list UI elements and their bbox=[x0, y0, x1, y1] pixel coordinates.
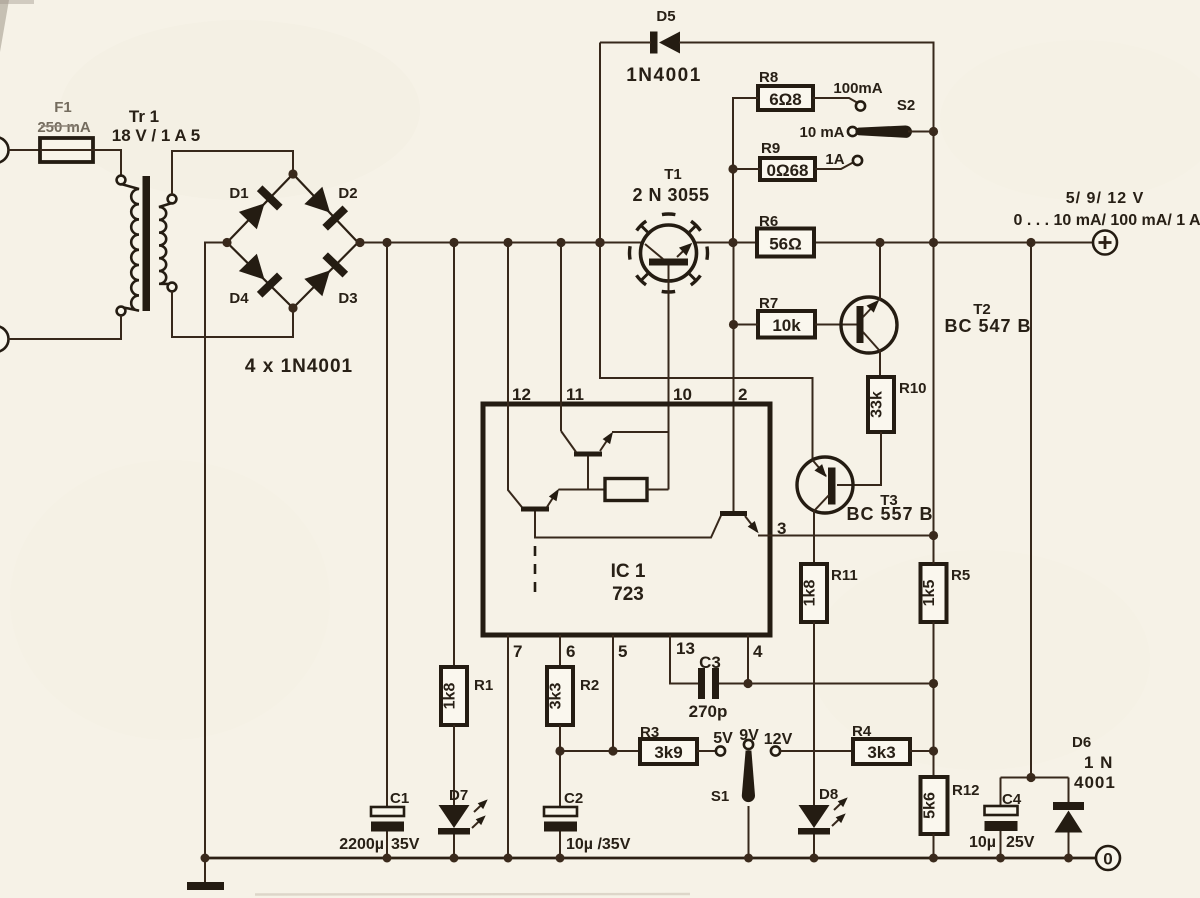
diode D2 bbox=[303, 186, 348, 231]
wire bbox=[8, 149, 40, 151]
svg-text:4: 4 bbox=[753, 642, 763, 661]
wire S1 to ground rail bbox=[748, 806, 750, 858]
node rail R1 bbox=[449, 238, 458, 247]
wire pin11 vertical bbox=[560, 243, 562, 432]
ground rail bbox=[205, 857, 1096, 860]
wire bridge sides bbox=[227, 174, 358, 308]
wire internal emitter rail bbox=[559, 489, 606, 491]
node gnd R12 bbox=[929, 854, 938, 863]
diode D3 bbox=[303, 252, 348, 297]
wire R1 branch bbox=[453, 243, 455, 668]
svg-text:F1: F1 bbox=[54, 99, 72, 116]
node rail S2 bbox=[929, 238, 938, 247]
wire C4/D6 branch bbox=[1030, 243, 1032, 778]
transistor internal Qc bbox=[720, 511, 747, 516]
svg-text:2 N 3055: 2 N 3055 bbox=[632, 185, 709, 205]
svg-text:D4: D4 bbox=[229, 290, 249, 307]
svg-text:3k9: 3k9 bbox=[654, 743, 682, 762]
wire D5 to right corner bbox=[679, 43, 934, 132]
svg-text:R10: R10 bbox=[899, 380, 927, 397]
svg-text:1k8: 1k8 bbox=[802, 580, 819, 607]
svg-text:3: 3 bbox=[777, 519, 786, 538]
wire R8 right to contact bbox=[813, 98, 857, 103]
switch contact 12V bbox=[771, 746, 780, 755]
wire internal resistor right bbox=[647, 489, 669, 491]
wire R9 right to contact bbox=[815, 163, 853, 170]
node R7 junction bbox=[729, 320, 738, 329]
wire R10 bottom to T3 base bbox=[837, 432, 881, 485]
wire C3 right to R5 vertical bbox=[719, 683, 934, 685]
svg-text:1k8: 1k8 bbox=[442, 683, 459, 710]
svg-text:56Ω: 56Ω bbox=[769, 235, 802, 254]
wire R2 junction to R3 bbox=[560, 750, 640, 752]
node gnd pin7 bbox=[504, 854, 513, 863]
svg-text:13: 13 bbox=[676, 639, 695, 658]
node rail C1 bbox=[382, 238, 391, 247]
wire C1 branch bbox=[386, 243, 388, 808]
svg-text:D6: D6 bbox=[1072, 734, 1091, 751]
svg-text:10 mA: 10 mA bbox=[799, 124, 844, 141]
node pin5 junction bbox=[608, 746, 617, 755]
svg-text:100mA: 100mA bbox=[833, 80, 882, 97]
node rail T2 bbox=[875, 238, 884, 247]
wire R7 right to T2 base bbox=[815, 324, 857, 326]
wire R5 to R12 bbox=[933, 622, 935, 777]
wire pin13 bbox=[670, 635, 698, 684]
wire R3 right bbox=[697, 750, 716, 752]
svg-text:33k: 33k bbox=[869, 391, 886, 418]
node bridge left bbox=[222, 238, 231, 247]
svg-text:12V: 12V bbox=[764, 731, 793, 748]
svg-text:10: 10 bbox=[673, 385, 692, 404]
svg-text:6Ω8: 6Ω8 bbox=[769, 90, 802, 109]
svg-text:D3: D3 bbox=[338, 290, 357, 307]
node gnd C4 bbox=[996, 854, 1005, 863]
switch contact 5V bbox=[716, 746, 725, 755]
wire bbox=[8, 315, 121, 339]
svg-text:270p: 270p bbox=[689, 702, 728, 721]
svg-text:5: 5 bbox=[618, 642, 627, 661]
switch S2 wiper bbox=[855, 125, 912, 137]
svg-text:T1: T1 bbox=[664, 166, 682, 183]
svg-text:D8: D8 bbox=[819, 786, 838, 803]
wire positive rail right bbox=[814, 242, 1093, 244]
node gnd S1 bbox=[744, 854, 753, 863]
node bridge bottom bbox=[288, 303, 297, 312]
svg-text:4001: 4001 bbox=[1074, 773, 1116, 792]
switch contact 10mA bbox=[848, 127, 857, 136]
wire bbox=[172, 291, 293, 337]
svg-text:11: 11 bbox=[566, 385, 584, 404]
wire R4 right bbox=[910, 750, 934, 752]
svg-text:0 . . . 10 mA/ 100 mA/ 1 A: 0 . . . 10 mA/ 100 mA/ 1 A bbox=[1013, 212, 1200, 229]
diode D4 bbox=[238, 253, 283, 298]
node pin4/C3 bbox=[743, 679, 752, 688]
wire D5 cathode drop to rail and T3 feed bbox=[600, 43, 813, 462]
wire positive rail left bbox=[360, 242, 642, 244]
svg-text:1k5: 1k5 bbox=[921, 580, 938, 607]
switch contact 9V bbox=[744, 740, 753, 749]
wire 12V to R4 bbox=[780, 750, 853, 752]
wire T2 emitter to R10 bbox=[879, 350, 881, 377]
switch S1 wiper bbox=[742, 751, 755, 803]
wire Qb base down bbox=[535, 512, 721, 538]
node C4/D6 top bbox=[1026, 773, 1035, 782]
svg-text:5k6: 5k6 bbox=[922, 792, 939, 819]
wire pin2 vertical bbox=[733, 243, 735, 512]
svg-text:D1: D1 bbox=[229, 185, 248, 202]
svg-text:2: 2 bbox=[738, 385, 747, 404]
svg-text:R8: R8 bbox=[759, 69, 778, 86]
wire minus vertical bbox=[205, 243, 227, 859]
node gnd C1 bbox=[383, 854, 392, 863]
node gnd D6 bbox=[1064, 854, 1073, 863]
node gnd C2 bbox=[556, 854, 565, 863]
node C3/R5 bbox=[929, 679, 938, 688]
node rail pin2 bbox=[728, 238, 737, 247]
svg-text:9V: 9V bbox=[739, 727, 759, 744]
node S2 right bbox=[929, 127, 938, 136]
node rail pin12 bbox=[503, 238, 512, 247]
svg-text:4 x 1N4001: 4 x 1N4001 bbox=[245, 356, 353, 377]
svg-text:R1: R1 bbox=[474, 677, 493, 694]
wire C4/D6 horizontal bbox=[1001, 777, 1069, 779]
svg-text:6: 6 bbox=[566, 642, 575, 661]
wire pin6 bbox=[559, 635, 561, 667]
svg-text:7: 7 bbox=[513, 642, 522, 661]
resistor internal bbox=[605, 479, 647, 501]
svg-text:R2: R2 bbox=[580, 677, 599, 694]
svg-text:D2: D2 bbox=[338, 185, 357, 202]
wire junction to C2 bbox=[559, 751, 561, 807]
svg-text:C1: C1 bbox=[390, 790, 409, 807]
svg-text:10k: 10k bbox=[772, 316, 801, 335]
svg-text:0: 0 bbox=[1103, 850, 1112, 869]
transistor internal Qa bbox=[574, 452, 602, 457]
svg-text:3k3: 3k3 bbox=[867, 743, 895, 762]
wire pin5 bbox=[612, 635, 614, 751]
switch contact 100mA bbox=[856, 101, 865, 110]
svg-text:1N4001: 1N4001 bbox=[626, 65, 702, 86]
node gnd left bbox=[201, 854, 210, 863]
svg-text:R12: R12 bbox=[952, 782, 980, 799]
svg-text:IC 1: IC 1 bbox=[611, 561, 646, 582]
wire pin12 vertical bbox=[508, 243, 523, 509]
svg-text:2200µ: 2200µ bbox=[339, 836, 384, 853]
node gnd D7 bbox=[450, 854, 459, 863]
output terminal 0 bbox=[1096, 846, 1120, 870]
svg-text:35V: 35V bbox=[391, 836, 420, 853]
wire C4 drop bbox=[1000, 778, 1002, 807]
svg-text:Tr 1: Tr 1 bbox=[129, 107, 159, 126]
switch contact 1A bbox=[853, 156, 862, 165]
ground bbox=[204, 858, 206, 882]
svg-text:BC 547 B: BC 547 B bbox=[944, 316, 1031, 336]
node rail D5 bbox=[595, 238, 605, 248]
svg-text:18 V / 1 A 5: 18 V / 1 A 5 bbox=[112, 126, 201, 145]
svg-text:5/ 9/ 12 V: 5/ 9/ 12 V bbox=[1066, 190, 1145, 207]
wire Qa emitter to pin10 bbox=[612, 431, 669, 433]
fuse F1 bbox=[40, 138, 93, 162]
svg-text:1 N: 1 N bbox=[1084, 753, 1113, 772]
wire pin3 bbox=[758, 535, 934, 537]
svg-text:5V: 5V bbox=[713, 730, 733, 747]
wire pin4 bbox=[747, 635, 749, 684]
svg-text:R11: R11 bbox=[831, 567, 858, 584]
svg-text:10µ: 10µ bbox=[969, 834, 996, 851]
node bridge right bbox=[355, 238, 364, 247]
wire T1 base to pin10 bbox=[668, 266, 670, 490]
wire pin7 vertical bbox=[507, 635, 509, 858]
svg-text:D7: D7 bbox=[449, 787, 468, 804]
svg-text:12: 12 bbox=[512, 385, 531, 404]
node bridge top bbox=[288, 169, 297, 178]
svg-text:R5: R5 bbox=[951, 567, 970, 584]
node R9 junction bbox=[728, 164, 737, 173]
svg-text:25V: 25V bbox=[1006, 834, 1035, 851]
svg-text:BC 557 B: BC 557 B bbox=[846, 504, 933, 524]
wire S2/R5 vertical bbox=[933, 132, 935, 565]
wire D5 top bbox=[600, 42, 651, 44]
input terminal upper bbox=[0, 137, 9, 163]
node rail C4 bbox=[1026, 238, 1035, 247]
wire bbox=[172, 151, 293, 195]
svg-text:R9: R9 bbox=[761, 140, 780, 157]
svg-text:10µ /35V: 10µ /35V bbox=[566, 836, 631, 853]
svg-text:S1: S1 bbox=[711, 788, 729, 805]
transistor internal Qb bbox=[521, 507, 549, 512]
svg-text:S2: S2 bbox=[897, 97, 915, 114]
wire R12 to rail bbox=[933, 834, 935, 858]
node gnd D8 bbox=[810, 854, 819, 863]
op-amp IC1 box bbox=[483, 404, 770, 635]
svg-text:1A: 1A bbox=[825, 151, 844, 168]
output terminal plus bbox=[1093, 231, 1117, 255]
svg-text:C2: C2 bbox=[564, 790, 583, 807]
wire R9 left bbox=[733, 168, 760, 170]
node pin3 R5 bbox=[929, 531, 938, 540]
wire R7 left bbox=[734, 324, 759, 326]
wire R2 to junction bbox=[559, 725, 561, 751]
node R4/R12 bbox=[929, 746, 938, 755]
wire positive rail middle bbox=[695, 242, 758, 244]
svg-text:250 mA: 250 mA bbox=[37, 119, 91, 136]
wire T3 collector to R11 bbox=[813, 510, 815, 564]
svg-text:D5: D5 bbox=[656, 8, 675, 25]
node R2/C2 bbox=[555, 746, 564, 755]
svg-text:0Ω68: 0Ω68 bbox=[767, 161, 809, 180]
svg-text:3k3: 3k3 bbox=[548, 683, 565, 710]
wire bbox=[93, 150, 121, 176]
wire dashed stub bbox=[534, 546, 537, 592]
node rail pin11 bbox=[556, 238, 565, 247]
svg-text:723: 723 bbox=[612, 584, 644, 605]
wire R1 to D7 bbox=[453, 725, 455, 806]
diode D1 bbox=[238, 185, 283, 230]
wire R11 to D8 bbox=[813, 622, 815, 806]
input terminal lower bbox=[0, 326, 9, 352]
wire R8 left bbox=[733, 98, 758, 243]
